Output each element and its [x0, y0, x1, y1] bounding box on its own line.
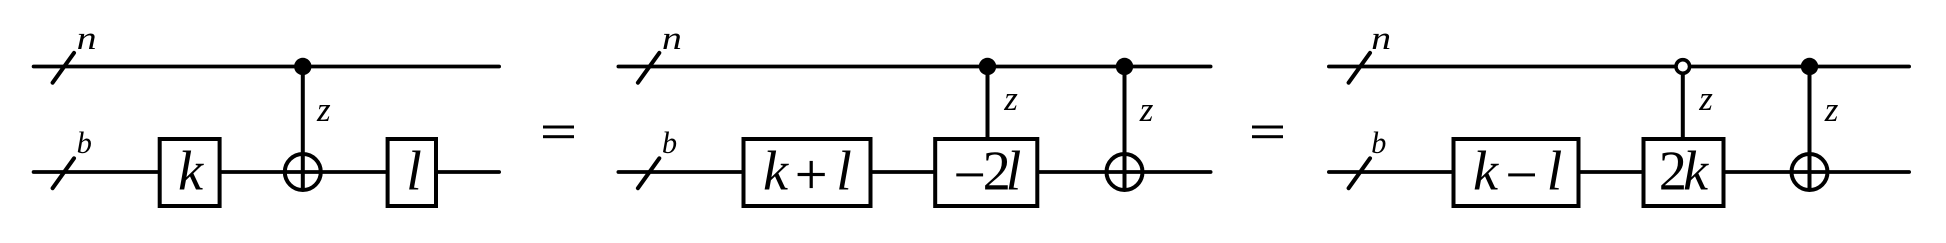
minus sign in k-l [1508, 173, 1535, 176]
svg-text:z: z [1698, 79, 1713, 118]
equals sign 1 [543, 126, 574, 139]
svg-text:z: z [316, 90, 331, 129]
svg-text:l: l [836, 141, 852, 203]
wire: control line CNOT circuit-3 [1808, 67, 1812, 191]
target XOR circuit-3 [1792, 154, 1828, 190]
plus sign in k+l [798, 161, 825, 188]
target XOR circuit-2 [1107, 154, 1143, 190]
svg-text:b: b [1371, 126, 1386, 160]
bus slash circuit-1 bottom wire [53, 158, 74, 188]
wire: circuit-2 top qubit bus n [618, 65, 1210, 69]
gate box k+l circuit-2 [744, 139, 871, 206]
bus slash circuit-3 bottom wire [1349, 158, 1370, 188]
wire: control line CNOT circuit-1 [301, 67, 305, 191]
svg-text:k: k [763, 141, 789, 203]
gate box l circuit-1 [388, 139, 436, 206]
wire: circuit-1 bottom qubit bus b [34, 170, 500, 174]
svg-text:n: n [662, 21, 682, 57]
wire: control line to -2l gate [986, 67, 990, 142]
svg-text:k: k [1683, 141, 1709, 203]
svg-text:l: l [1006, 141, 1022, 203]
wire: circuit-3 bottom qubit bus b [1329, 170, 1909, 174]
svg-text:n: n [1371, 21, 1391, 57]
svg-text:n: n [77, 21, 97, 57]
gate box k-l circuit-3 [1454, 139, 1579, 206]
svg-text:z: z [1139, 90, 1154, 129]
wire: circuit-2 bottom qubit bus b [618, 170, 1210, 174]
svg-text:z: z [1824, 90, 1839, 129]
svg-text:k: k [178, 141, 204, 203]
wire: control line to 2k gate [1681, 67, 1685, 142]
wire: circuit-3 top qubit bus n [1329, 65, 1909, 69]
svg-text:z: z [1003, 79, 1018, 118]
minus sign in -2l [956, 173, 983, 176]
gate box -2l circuit-2 [935, 139, 1037, 206]
control dot (filled) CNOT circuit-2 [1116, 58, 1133, 75]
svg-text:b: b [77, 126, 92, 160]
wire: control line CNOT circuit-2 [1123, 67, 1127, 191]
equals sign 2 [1252, 126, 1283, 139]
bus slash circuit-2 bottom wire [638, 158, 659, 188]
target XOR circuit-1 [285, 154, 321, 190]
control dot (filled) CNOT circuit-3 [1801, 58, 1818, 75]
control dot (filled) over -2l gate [979, 58, 996, 75]
gate box k circuit-1 [160, 139, 220, 206]
svg-text:l: l [1547, 141, 1563, 203]
bus slash circuit-2 top wire [638, 53, 659, 83]
control dot (filled) circuit-1 [294, 58, 311, 75]
svg-text:l: l [406, 141, 422, 203]
svg-text:k: k [1473, 141, 1499, 203]
gate box 2k circuit-3 [1644, 139, 1724, 206]
open control dot over 2k gate [1676, 60, 1690, 74]
bus slash circuit-1 top wire [53, 53, 74, 83]
svg-text:b: b [662, 126, 677, 160]
wire: circuit-1 top qubit bus n [34, 65, 500, 69]
bus slash circuit-3 top wire [1349, 53, 1370, 83]
